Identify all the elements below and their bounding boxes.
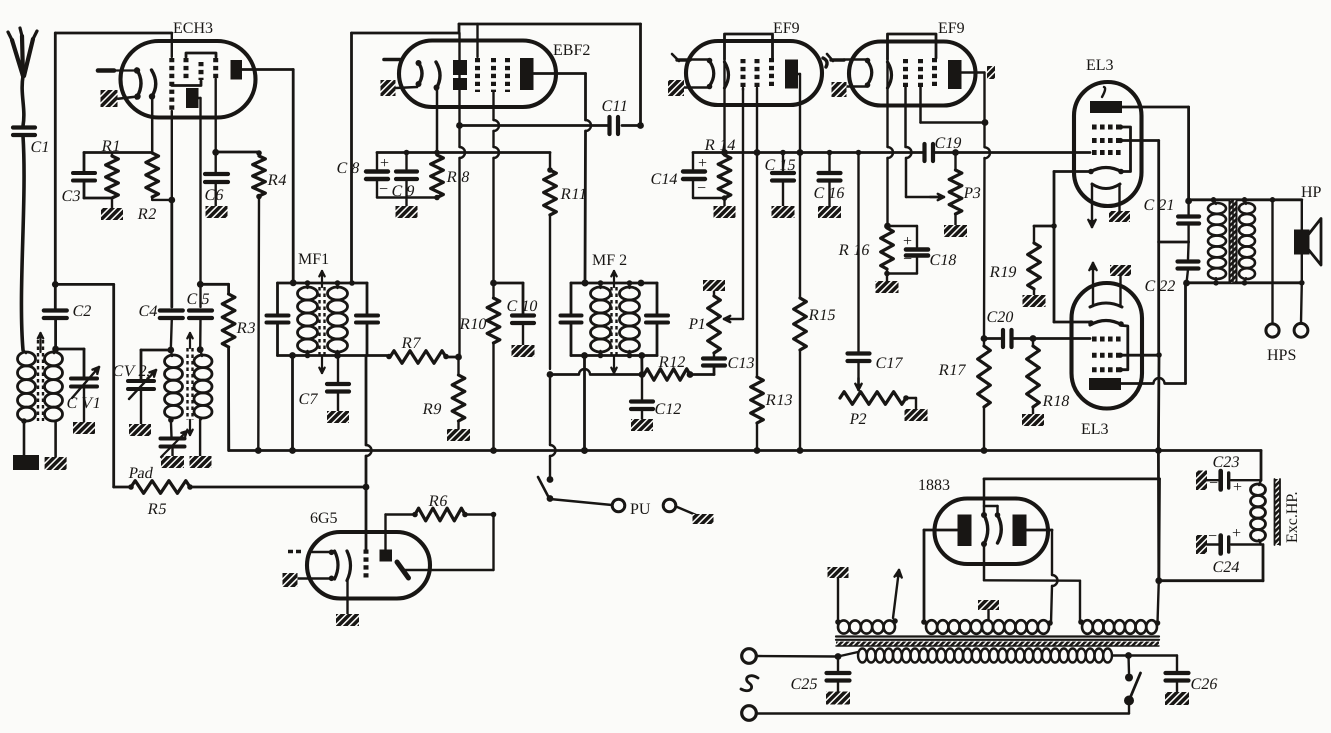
cathode arc EF9-2 [844,58,872,88]
capacitor C12 [631,375,683,420]
grid column EF9-2 g3 [932,58,937,88]
svg-text:C3: C3 [60,188,82,205]
svg-text:C6: C6 [203,187,225,204]
svg-text:R11: R11 [559,186,588,203]
potentiometer P2 [840,392,916,428]
svg-text:−: − [903,251,912,268]
core power transformer [836,637,1159,647]
svg-text:R10: R10 [458,316,488,333]
grid column g4 ECH3 [213,58,218,79]
grid row EL3-1 g2 [1092,138,1121,143]
capacitor C9 [390,150,417,206]
capacitor C4 [137,303,182,320]
svg-text:HP: HP [1301,184,1322,201]
winding rectifier filament [1078,581,1160,634]
resistor R14 [703,137,737,206]
svg-text:C17: C17 [874,355,904,372]
ground (6G5 cathode) [336,614,359,626]
capacitor C8 (electrolytic) [335,153,437,199]
wire EBF2 box top [352,24,641,126]
ground (P1 top) [703,280,725,291]
capacitor C20 [984,309,1090,347]
svg-text:Exc.HP.: Exc.HP. [1284,491,1301,543]
resistor R6 [412,493,496,521]
tube EBF2 envelope [399,41,590,108]
svg-text:P2: P2 [848,411,868,428]
core oscillator coil [187,333,192,435]
capacitor C1 [13,128,51,156]
wire B line (AVC bracket) [377,151,550,154]
winding HT secondary [921,619,1053,634]
core MF1 [319,271,324,373]
svg-text:EF9: EF9 [938,20,965,37]
svg-text:C 16: C 16 [812,185,846,202]
MF1 primary coil [298,283,318,356]
grid arc 2 ECH3 [149,70,156,153]
cathode arc ECH3 triode [134,67,141,99]
svg-text:C24: C24 [1211,559,1241,576]
resistor R2 [136,153,175,223]
wire bracket R1 C3 R2 [84,151,152,154]
wire bus corner to C23 [1260,451,1263,481]
cathode arc EL3-2 [1088,320,1124,327]
svg-text:R3: R3 [235,320,257,337]
svg-text:P1: P1 [687,316,707,333]
potentiometer P3 [949,149,982,225]
wire bracket g3-cathode EL3-1 [1118,124,1131,171]
wire EF9-2 anode down to R17 [981,123,990,342]
tube 1883 envelope [918,477,1048,564]
wire antenna lead [22,76,24,126]
svg-text:1883: 1883 [918,477,950,494]
terminal mains bottom [742,706,1129,721]
svg-text:C25: C25 [789,676,819,693]
core output transformer [1230,200,1237,283]
winding primary [838,649,1129,663]
ground (EBF2 cathode) [381,80,396,96]
wire 1883 filament top to HT rail [984,479,1162,584]
anode EF9-2 (plate) [948,60,985,123]
capacitor C19 [925,135,1091,161]
anode EBF2 pentode (plate) [520,58,534,90]
node EF9-2 smudge [987,66,995,79]
capacitor C6 [203,149,228,206]
resistor R16 [837,223,893,281]
svg-text:R7: R7 [400,335,422,352]
wire C24 bottom rail [1159,545,1263,581]
wire heater right EL3-2 [1119,276,1121,306]
capacitor C26 [1166,673,1219,693]
wire staple EF9-1 [725,34,773,59]
wire EL3-1 anode to transformer [1122,107,1192,204]
wire top rail to ECH3 grid [55,32,172,35]
svg-text:+: + [698,155,707,172]
ground (C16) [818,206,841,218]
wire heater right EL3-1 [1118,185,1120,211]
grid arc 6G5 [347,551,351,614]
grid column g3 ECH3 [199,62,204,80]
wire ECH3 pin to C6 bracket [214,79,216,152]
svg-text:R4: R4 [266,172,288,189]
grid column EBF2 g-cap [476,24,478,92]
ground (EL3-2 heater) [1110,265,1131,276]
wire HPS terminal 1 [1266,200,1279,337]
wire EBF2 cathode to ground [396,87,417,88]
grid row EL3-2 g1 [1092,337,1121,342]
wire heater winding arrow [893,570,902,618]
ground (osc coil right) [190,456,212,468]
oscillator coil right L4 [194,350,212,456]
ground (C7) [327,411,349,423]
svg-text:MF 2: MF 2 [592,252,627,269]
wire bracket C6 to R4 [216,150,262,156]
svg-text:C 21: C 21 [1142,197,1176,214]
wire C4 to osc coil [167,319,174,353]
deflector blade 6G5 [397,562,409,578]
svg-text:C 8: C 8 [335,160,361,177]
target electrode 6G5 [380,515,416,562]
cathode lead arc EF9-1 [725,59,729,153]
anode EF9-1 (plate) [785,60,800,153]
wire HPS terminal 2 [1294,283,1308,337]
capacitor C13 [703,353,756,372]
core MF2 [611,271,616,373]
tube EF9 second envelope [849,20,976,106]
node secondary top junction [52,346,59,353]
capacitor C11 [600,98,644,134]
winding heater 4V [835,578,898,634]
grid column EF9-1 g1 [741,59,746,90]
resistor R4 [253,152,288,451]
grid column EF9-1 g2 [755,59,760,153]
wire MF2 bottom to bus [581,356,588,454]
svg-text:+: + [903,233,912,250]
output transformer secondary coil [1239,200,1255,283]
svg-text:C2: C2 [71,303,93,320]
MF1 secondary cap [349,280,378,355]
wire bracket g3-cathode EL3-2 [1118,326,1128,373]
svg-text:C11: C11 [600,98,629,115]
wire 1883 right anode to HT winding [1027,530,1058,623]
grid row EL3-2 g2 [1092,353,1121,358]
oscillator coil left L3 [165,350,183,423]
grid column EF9-2 g2 [921,59,989,126]
wire 1883 left anode to HT winding [924,530,958,621]
potentiometer P1 [687,291,720,353]
capacitor C3 [60,153,112,205]
tube 6G5 envelope [307,510,430,599]
wire g1 line to C4 [170,200,173,307]
svg-text:R17: R17 [937,362,967,379]
antenna [8,28,37,76]
wire PU to ground [676,507,696,516]
svg-text:C26: C26 [1189,676,1219,693]
svg-text:R1: R1 [100,138,122,155]
svg-text:ECH3: ECH3 [173,20,213,37]
svg-text:C 22: C 22 [1143,278,1177,295]
svg-text:R19: R19 [988,264,1018,281]
wire heater left arrow EL3-1 [1088,185,1095,227]
cathode arc 6G5 [298,550,338,582]
resistor R19 [988,226,1040,295]
svg-text:C7: C7 [297,391,319,408]
svg-text:C20: C20 [985,309,1015,326]
ground (C26) [1165,692,1189,705]
svg-text:R15: R15 [807,307,837,324]
svg-text:EL3: EL3 [1081,421,1109,438]
terminal PU right [663,499,676,512]
grid column g2 ECH3 [184,58,189,79]
svg-text:−: − [697,180,706,197]
wire hexode anode to MF1 [242,70,293,283]
grid column g1 ECH3 [171,33,173,200]
heater arc EL3-1 [1092,184,1120,189]
wire C2 up to top rail / node at y283 [52,33,59,309]
antenna coil primary L1 [18,350,36,455]
wire secondary rail up to C2 [54,320,57,348]
ground (antenna coil secondary) [45,457,67,470]
ground (CV2) [129,424,151,436]
svg-text:PU: PU [630,501,651,518]
ground (P2) [905,409,928,421]
MF1 primary tank [267,279,388,359]
wire screen EL3-2 to rail [1118,353,1159,358]
wire screen EL3-1 to rail [1118,138,1159,242]
wire primary to C26 [1129,656,1178,672]
svg-text:−: − [379,181,388,198]
transformer output top wire [1189,197,1302,203]
svg-text:C 10: C 10 [505,298,539,315]
anode EL3-1 (plate) [1090,101,1122,113]
svg-text:+: + [1232,525,1241,542]
ground (CV1) [73,422,95,434]
ground (R14) [714,206,736,218]
switch mains [1124,652,1141,713]
MF2 secondary coil [620,280,640,358]
anode 1883 left (plate) [958,515,972,547]
wire B+ line down to MF1 [350,33,353,283]
tube EF9 first envelope [686,20,822,105]
MF2 primary tank [561,280,658,359]
output transformer primary coil [1208,200,1226,283]
wire MF1 bottom to 6G5 grid [363,356,372,550]
ground (R9) [447,429,470,441]
wire triode anode to C5 [197,281,204,307]
cathode lead arc EF9-2 [888,59,894,226]
ground (6G5 left) [283,573,298,587]
capacitor C23 (electrolytic) [1196,454,1261,496]
ground (Pad) [161,456,184,468]
ground (C10) [512,345,535,357]
svg-text:R5: R5 [146,501,168,518]
wire cathode to ground ECH3 [116,97,138,100]
MF1 secondary coil [328,280,348,359]
ground (R19) [1023,295,1046,307]
wire P1 wiper arrow [724,89,743,323]
capacitor C24 (electrolytic) [1196,525,1261,576]
svg-text:+: + [1233,479,1242,496]
resistor R12 [644,354,714,380]
grid column EF9-1 g3 [769,58,774,88]
wire diode line A [460,124,610,127]
resistor R8 [431,150,471,201]
terminal mains top [742,649,842,664]
ground (antenna coil primary, solid) [13,455,39,470]
svg-text:−: − [1208,528,1217,545]
variable capacitor CV1 [65,367,102,422]
ground (C9) [396,206,418,218]
svg-text:R13: R13 [764,392,794,409]
svg-text:R18: R18 [1041,393,1071,410]
padder capacitor Pad [127,420,187,482]
capacitor C16 [812,150,846,206]
resistor R7 [386,335,458,363]
filament 1883 [981,506,1001,547]
svg-text:C 9: C 9 [390,183,416,200]
speaker HP [1296,184,1322,283]
ground (heater winding) [828,567,849,578]
svg-text:C4: C4 [137,303,159,320]
grid column EBF2 g3 [505,58,510,92]
wire main bus [229,347,1261,454]
svg-text:MF1: MF1 [298,251,329,268]
capacitor C25 [789,657,849,693]
resistor R17 [937,339,990,454]
ground (R16) [876,281,899,293]
svg-text:6G5: 6G5 [310,510,338,527]
svg-text:C12: C12 [653,401,683,418]
grid row EL3-1 g3 [1092,125,1121,130]
antenna coil secondary L2 [45,348,63,457]
wire EL3 cathode chain [1034,172,1091,323]
resistor R1 [100,138,122,208]
wire P3 wiper arrow [906,194,944,200]
svg-text:C 5: C 5 [185,291,211,308]
capacitor C7 [297,356,349,412]
wire staple EF9-2 [888,34,937,59]
field coil Exc.HP [1251,479,1302,545]
core antenna transformer [38,333,43,421]
svg-text:C18: C18 [928,252,958,269]
svg-text:C14: C14 [649,171,679,188]
svg-text:EL3: EL3 [1086,57,1114,74]
tube EL3 second envelope [1072,283,1143,438]
ground (R1) [101,208,123,220]
svg-text:EF9: EF9 [773,20,800,37]
ground (EL3-1 heater) [1109,211,1130,222]
ground (C25) [826,692,850,705]
svg-text:C1: C1 [29,139,51,156]
symbol AC [741,676,758,691]
capacitor C21 [1142,197,1199,242]
wire heater left arrow EL3-2 [1089,263,1096,306]
wire staple g2-g4 ECH3 [186,53,216,57]
grid column EBF2 g2 [494,58,500,283]
cathode arc EL3-1 [1088,168,1124,175]
MF2 secondary cap [638,280,668,356]
capacitor C17 [848,150,904,390]
capacitor C10 [505,298,539,345]
wire diode lead down [455,90,465,360]
ground (ECH3 cathode) [101,90,118,107]
ground (EF9-1 cathode) [668,80,684,96]
resistor R11 [544,153,589,480]
svg-text:R 14: R 14 [703,137,737,154]
svg-text:C23: C23 [1211,454,1241,471]
svg-text:C13: C13 [726,355,756,372]
pin tick EF9-2 [827,54,844,61]
resistor R3 [222,294,257,451]
ground (R18) [1022,414,1044,426]
tube ECH3 envelope [121,20,256,118]
ground (C6) [206,206,228,218]
wire AVC to R12 [550,352,645,378]
capacitor C18 (electrolytic) [887,226,958,274]
wire branch to R3 [200,284,228,294]
wire AVC line [693,151,925,154]
ground (PU) [693,514,714,524]
ground (C15) [772,206,795,218]
capacitor C2 [44,303,93,320]
svg-text:Pad: Pad [127,465,154,482]
wire R10 C10 bracket [490,280,523,314]
svg-text:HPS: HPS [1267,347,1296,364]
svg-text:P3: P3 [962,185,982,202]
print artifact between EF9 tubes [823,58,827,67]
transformer MF1 label [298,251,329,268]
resistor R9 [421,357,464,429]
wire branch to R5 column [55,284,113,487]
wire CV1 top bracket [56,349,84,377]
wire EBF2 anode to MF2 [534,74,592,287]
tube EL3 first envelope [1074,57,1142,206]
capacitor C15 [763,150,797,206]
svg-text:R9: R9 [421,401,443,418]
svg-text:R12: R12 [657,354,687,371]
anode hexode ECH3 (plate) [231,60,243,80]
ground (C12) [631,419,653,431]
svg-text:R 16: R 16 [837,242,871,259]
cathode arc EBF2 [416,60,423,87]
svg-text:+: + [380,155,389,172]
svg-text:CV 2,: CV 2, [111,363,152,380]
MF2 primary coil [591,283,611,356]
anode EL3-2 (plate) [1089,378,1121,390]
resistor R13 [751,149,794,454]
resistor R10 [458,283,499,454]
wire screen junction [1155,242,1189,581]
resistor R5 [114,481,366,518]
ground (HT center tap) [978,600,999,620]
pin grid tick ECH3 [98,68,137,73]
svg-text:R6: R6 [427,493,449,510]
svg-text:R2: R2 [136,206,158,223]
label PU [630,501,651,518]
svg-text:C 15: C 15 [763,157,797,174]
grid arc EBF2 [434,62,441,153]
ground (EF9-2 cathode) [832,82,847,97]
pin tick EBF2 [384,58,400,62]
wire step g1-g3 ECH3 [172,81,201,86]
wire C1 to antenna coil [21,136,24,350]
svg-text:C19: C19 [933,135,963,152]
terminal PU left [612,499,625,512]
capacitor C14 (electrolytic) [649,153,724,199]
variable capacitor CV2 [111,350,170,424]
svg-text:−: − [1209,475,1218,492]
switch PU pickup [538,476,612,505]
grid column EF9-2 g1 [906,59,912,197]
